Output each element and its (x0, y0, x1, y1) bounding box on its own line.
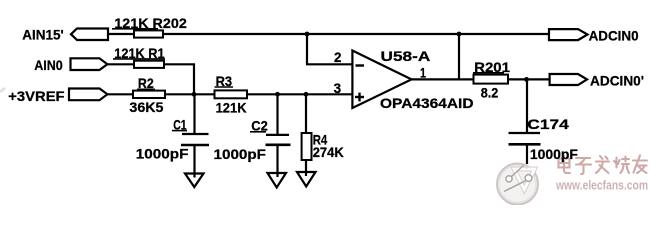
faint scan artifact at left edge (0, 88, 5, 92)
node: junction C2 (275, 92, 280, 97)
wire R202 to ADCIN0 (top net) (163, 33, 549, 35)
svg-text:www.elecfans.com: www.elecfans.com (555, 178, 648, 193)
svg-text:C174: C174 (527, 117, 569, 132)
resistor R201 (473, 60, 510, 101)
logo link icon (504, 166, 532, 192)
wire R3 to op-amp +input (247, 93, 352, 95)
wire R1 right then down to +3VREF net (164, 64, 194, 94)
svg-text:1: 1 (420, 66, 426, 81)
svg-text:2: 2 (334, 50, 342, 65)
svg-text:8.2: 8.2 (481, 86, 499, 101)
svg-text:1000pF: 1000pF (530, 147, 578, 162)
capacitor C2 (214, 94, 291, 177)
resistor R3 (215, 74, 248, 116)
connector AIN15' (22, 27, 108, 42)
svg-text:1000pF: 1000pF (136, 146, 189, 161)
node: feedback tap on top net (305, 32, 310, 37)
node: junction C174 (524, 77, 529, 82)
resistor R2 (129, 76, 165, 115)
svg-text:AIN0: AIN0 (34, 58, 63, 73)
svg-text:AIN15': AIN15' (22, 27, 64, 42)
resistor R4 (vertical) (302, 94, 344, 176)
node: junction R1/C1 on +3VREF net (192, 92, 197, 97)
node: junction R4 (304, 92, 309, 97)
connector AIN0 (34, 58, 107, 73)
svg-text:3: 3 (334, 81, 342, 96)
connector ADCIN0 (549, 28, 639, 43)
wire +3VREF to R2 (107, 93, 133, 95)
ground under R4 (297, 172, 316, 187)
ground triangle under C174 showing white through logo (514, 163, 535, 190)
wire op-amp output to R201 (412, 78, 474, 80)
svg-text:ADCIN0: ADCIN0 (589, 28, 639, 43)
resistor R202 (112, 16, 187, 38)
svg-text:1000pF: 1000pF (214, 147, 267, 162)
wire output up to top net (458, 33, 460, 79)
node: output feedback tap (457, 32, 462, 37)
svg-text:ADCIN0': ADCIN0' (590, 73, 644, 88)
wire AIN0 to R1 (107, 63, 134, 65)
capacitor C1 (136, 94, 209, 177)
svg-text:121K: 121K (216, 101, 247, 116)
resistor R1 (113, 46, 165, 68)
svg-text:+3VREF: +3VREF (8, 89, 64, 104)
wire R2 to R3 (165, 93, 215, 95)
connector +3VREF (8, 89, 107, 104)
svg-text:U58-A: U58-A (381, 49, 431, 64)
watermark chinese text 电子发烧友 (approximated glyph strokes) (559, 156, 648, 175)
ground under C1 (185, 174, 204, 188)
svg-text:36K5: 36K5 (129, 100, 163, 115)
wire R201 to ADCIN0' (508, 78, 550, 80)
svg-text:274K: 274K (313, 145, 344, 160)
capacitor C174 (509, 79, 578, 164)
watermark logo disc (stamped over schematic) (497, 164, 538, 205)
svg-text:OPA4364AID: OPA4364AID (380, 96, 474, 111)
wire AIN15' to R202 (108, 33, 134, 35)
ground under C2 (268, 173, 287, 188)
connector ADCIN0' (550, 73, 644, 88)
wire feedback down to pin 2 (307, 34, 352, 64)
op-amp U58-A (352, 49, 473, 111)
